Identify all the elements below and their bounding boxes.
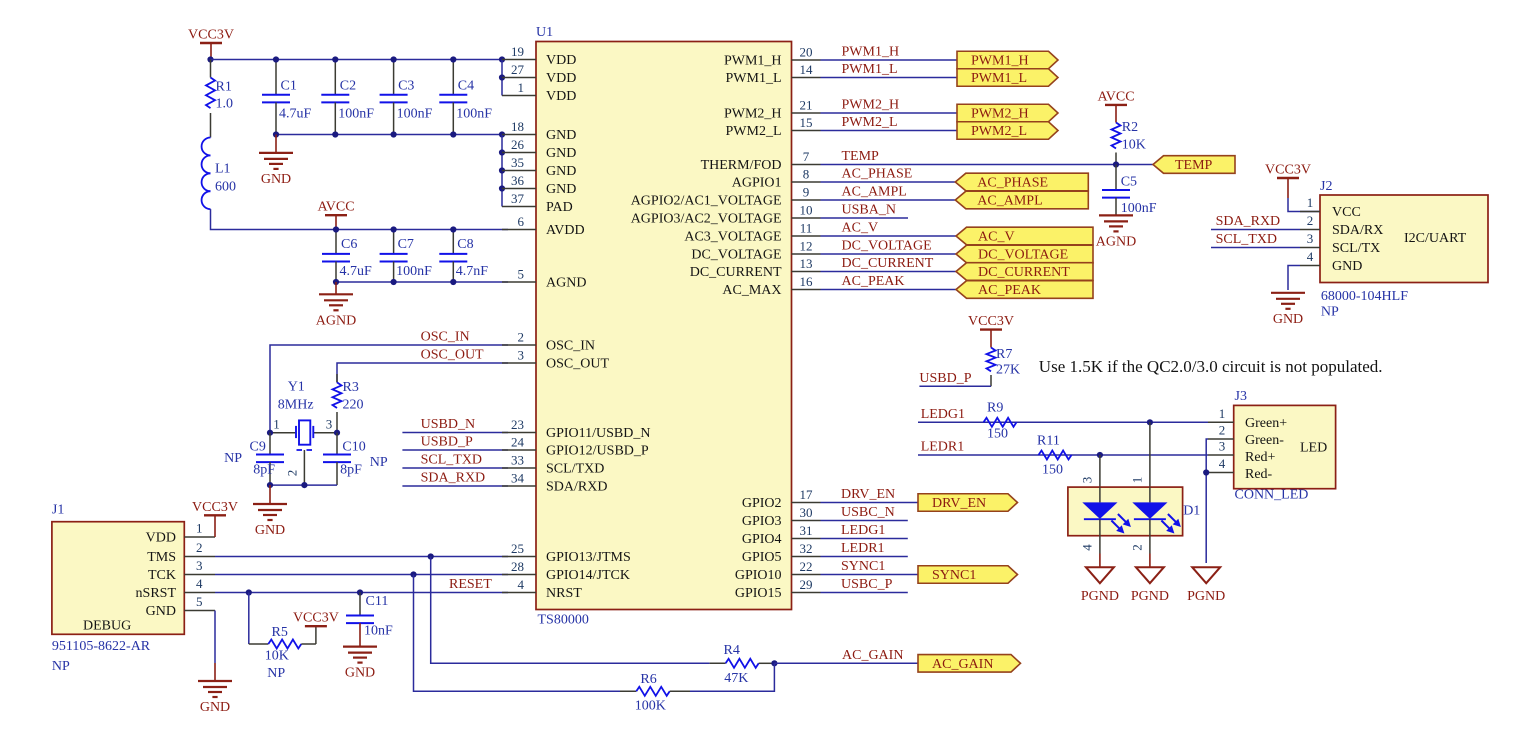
node C1 top [273, 56, 279, 62]
wire D1 pin3 [1080, 455, 1100, 487]
svg-text:SDA_RXD: SDA_RXD [1216, 214, 1281, 229]
svg-text:PWM2_H: PWM2_H [971, 107, 1029, 122]
svg-text:PWM1_H: PWM1_H [724, 54, 782, 69]
pin U1.13 (DC_CURRENT) [690, 256, 821, 280]
svg-text:PWM2_H: PWM2_H [842, 98, 900, 113]
svg-text:31: 31 [800, 523, 813, 538]
svg-text:GND: GND [261, 172, 291, 187]
wire J1 GND [214, 611, 216, 664]
svg-text:AC_GAIN: AC_GAIN [932, 657, 993, 672]
svg-text:DC_VOLTAGE: DC_VOLTAGE [842, 239, 932, 254]
svg-text:3: 3 [1307, 231, 1314, 246]
wire PWM1_H net [821, 45, 958, 61]
svg-text:AC_V: AC_V [842, 221, 879, 236]
wire SDA_RXD net [402, 471, 508, 487]
svg-text:AC3_VOLTAGE: AC3_VOLTAGE [684, 230, 781, 245]
svg-text:C9: C9 [250, 440, 266, 455]
ground AGND (under C6) [316, 282, 356, 328]
svg-text:2: 2 [285, 470, 300, 477]
node C9 bottom [267, 482, 273, 488]
node nSRST/C11 junction [357, 589, 363, 595]
svg-text:1: 1 [518, 80, 525, 95]
wire USBC_N net [821, 505, 908, 521]
svg-text:SCL/TXD: SCL/TXD [546, 462, 604, 477]
pin U1.11 (AC3_VOLTAGE) [684, 221, 820, 245]
svg-text:2: 2 [518, 330, 525, 345]
capacitor C3 [380, 60, 433, 135]
svg-text:R6: R6 [640, 672, 656, 687]
svg-text:27K: 27K [996, 363, 1020, 378]
pin U1.15 (PWM2_L) [726, 115, 821, 139]
svg-text:C4: C4 [458, 79, 474, 94]
node J3 pin4 junction [1203, 469, 1209, 475]
flag AC_PHASE [955, 173, 1088, 191]
wire VDD pin bus [501, 60, 503, 96]
LED D1 red element [1132, 487, 1181, 536]
svg-text:13: 13 [800, 256, 813, 271]
power symbol VCC3V (top left) [188, 28, 234, 60]
svg-text:R3: R3 [343, 380, 359, 395]
svg-text:PWM1_L: PWM1_L [971, 71, 1027, 86]
svg-text:AGND: AGND [546, 276, 586, 291]
wire PWM2_H net [821, 98, 958, 114]
svg-text:AC_MAX: AC_MAX [722, 283, 781, 298]
svg-text:DRV_EN: DRV_EN [932, 496, 986, 511]
svg-text:1: 1 [273, 417, 280, 432]
pin J3.1 stub [1208, 406, 1234, 423]
inductor L1 [202, 138, 236, 210]
node C6 bottom / AGND junction [333, 279, 339, 285]
svg-text:TS80000: TS80000 [538, 613, 589, 628]
node TMS/R4 junction [428, 553, 434, 559]
power symbol AVCC (R2) [1097, 89, 1134, 122]
svg-text:8MHz: 8MHz [278, 398, 314, 413]
svg-text:VCC: VCC [1332, 205, 1361, 220]
wire GND rail [276, 134, 502, 136]
svg-text:TEMP: TEMP [1175, 158, 1213, 173]
node C3 top [391, 56, 397, 62]
node C4 top [450, 56, 456, 62]
node Y1 pin1 [267, 430, 273, 436]
pin J3.3 stub [1208, 439, 1234, 456]
svg-text:32: 32 [800, 541, 813, 556]
flag TEMP [1153, 156, 1235, 174]
pin U1.29 (GPIO15) [735, 577, 821, 601]
svg-text:1: 1 [196, 521, 203, 536]
svg-text:26: 26 [511, 137, 525, 152]
svg-text:5: 5 [518, 267, 525, 282]
svg-text:C3: C3 [398, 79, 414, 94]
node C3 bottom [391, 131, 397, 137]
svg-text:14: 14 [800, 62, 814, 77]
svg-text:VDD: VDD [546, 89, 576, 104]
svg-text:11: 11 [800, 221, 813, 236]
svg-text:AC_AMPL: AC_AMPL [842, 185, 907, 200]
flag DC_VOLTAGE [956, 245, 1093, 263]
svg-text:27: 27 [511, 62, 525, 77]
svg-text:LEDR1: LEDR1 [841, 541, 885, 556]
svg-text:SYNC1: SYNC1 [932, 568, 976, 583]
svg-text:3: 3 [1080, 477, 1095, 484]
svg-text:LEDR1: LEDR1 [921, 440, 965, 455]
svg-text:GPIO4: GPIO4 [742, 532, 782, 547]
node pin19 junction [499, 56, 505, 62]
wire J3 Green-/Red- to PGND [1206, 439, 1208, 563]
connector J1 (DEBUG) [52, 503, 184, 675]
svg-text:C5: C5 [1121, 175, 1137, 190]
wire TCK to R6 [414, 575, 621, 692]
svg-text:VDD: VDD [546, 71, 576, 86]
capacitor C9 [224, 433, 284, 485]
svg-text:10nF: 10nF [364, 624, 393, 639]
svg-text:C2: C2 [340, 79, 356, 94]
svg-text:nSRST: nSRST [136, 586, 177, 601]
svg-text:25: 25 [511, 541, 524, 556]
svg-text:100nF: 100nF [1121, 201, 1157, 216]
node R4/R6 junction [771, 660, 777, 666]
wire OSC_IN net [270, 330, 508, 433]
wire TMS to R4 [431, 557, 710, 664]
resistor R4 [710, 643, 775, 686]
svg-text:PWM2_L: PWM2_L [971, 124, 1027, 139]
resistor R11 [1037, 434, 1072, 478]
wire D1 pin2 [1130, 536, 1150, 554]
svg-text:TEMP: TEMP [842, 149, 880, 164]
pin U1.4 (NRST) [502, 577, 582, 601]
node C8 top [450, 226, 456, 232]
capacitor C4 [439, 60, 492, 135]
pin U1.34 (SDA/RXD) [502, 471, 607, 495]
svg-text:PWM1_L: PWM1_L [842, 62, 898, 77]
svg-text:I2C/UART: I2C/UART [1404, 231, 1467, 246]
capacitor C5 [1102, 165, 1157, 217]
svg-text:PGND: PGND [1187, 589, 1225, 604]
pin U1.10 (AGPIO3/AC2_VOLTAGE) [631, 203, 821, 227]
wire VDD rail [211, 59, 503, 61]
svg-text:4.7nF: 4.7nF [456, 264, 489, 279]
svg-text:USBA_N: USBA_N [842, 203, 896, 218]
LED D1 body [1068, 487, 1200, 536]
svg-text:AC_PEAK: AC_PEAK [842, 274, 905, 289]
svg-text:GPIO3: GPIO3 [742, 514, 782, 529]
pin U1.17 (GPIO2) [742, 487, 821, 511]
svg-text:15: 15 [800, 115, 813, 130]
capacitor C2 [321, 60, 374, 135]
svg-text:J2: J2 [1320, 179, 1332, 194]
wire SCL_TXD (J2) net [1211, 232, 1300, 248]
svg-text:U1: U1 [536, 25, 553, 40]
svg-text:GPIO13/JTMS: GPIO13/JTMS [546, 550, 631, 565]
svg-text:Red+: Red+ [1245, 450, 1276, 465]
svg-text:USBD_P: USBD_P [421, 435, 473, 450]
svg-text:GND: GND [1273, 312, 1303, 327]
wire AC_PHASE net [821, 167, 956, 183]
wire DC_CURRENT net [821, 256, 957, 272]
svg-text:DC_VOLTAGE: DC_VOLTAGE [691, 248, 781, 263]
wire L1 to AVCC rail [211, 209, 337, 229]
flag SYNC1 [918, 566, 1018, 584]
power symbol AVCC (left) [317, 200, 354, 230]
pin J3.4 stub [1208, 456, 1234, 473]
wire OSC_OUT net [337, 348, 508, 383]
pin U1.32 (GPIO5) [742, 541, 821, 565]
flag PWM2_L [957, 122, 1058, 140]
svg-text:2: 2 [196, 540, 203, 555]
node TEMP junction [1113, 161, 1119, 167]
pin U1.28 (GPIO14/JTCK) [502, 559, 630, 583]
pin U1.30 (GPIO3) [742, 505, 821, 529]
svg-text:R5: R5 [272, 625, 288, 640]
pin U1.5 (AGND) [502, 267, 586, 291]
wire PWM2_L net [821, 115, 958, 131]
pin U1.8 (AGPIO1) [732, 167, 821, 191]
svg-text:Red-: Red- [1245, 467, 1273, 482]
node pin36 junction [499, 185, 505, 191]
node Y1 pin3 [334, 430, 340, 436]
wire USBA_N net [821, 203, 909, 219]
svg-text:Y1: Y1 [288, 380, 305, 395]
pin U1.20 (PWM1_H) [724, 45, 821, 69]
power symbol VCC3V (R5) [293, 611, 339, 644]
svg-text:AGPIO3/AC2_VOLTAGE: AGPIO3/AC2_VOLTAGE [631, 212, 782, 227]
svg-text:7: 7 [803, 149, 810, 164]
svg-text:DEBUG: DEBUG [83, 619, 131, 634]
svg-text:DRV_EN: DRV_EN [841, 487, 895, 502]
svg-text:600: 600 [215, 180, 236, 195]
svg-text:Green-: Green- [1245, 433, 1284, 448]
svg-text:1.0: 1.0 [216, 97, 234, 112]
svg-text:LED: LED [1300, 441, 1327, 456]
pin U1.18 (GND) [502, 119, 576, 143]
pin U1.1 (VDD) [502, 80, 576, 104]
node TCK/R6 junction [410, 571, 416, 577]
node LEDR1/D1 junction [1097, 452, 1103, 458]
svg-text:AVCC: AVCC [1097, 89, 1134, 104]
svg-text:4.7uF: 4.7uF [279, 107, 312, 122]
wire LEDR1 net [918, 440, 1208, 456]
svg-text:SCL_TXD: SCL_TXD [421, 453, 482, 468]
svg-text:2: 2 [1307, 213, 1314, 228]
svg-text:2: 2 [1219, 423, 1226, 438]
svg-text:GND: GND [255, 523, 285, 538]
svg-text:R1: R1 [216, 80, 232, 95]
svg-text:GND: GND [546, 164, 576, 179]
svg-text:220: 220 [343, 398, 364, 413]
svg-text:DC_CURRENT: DC_CURRENT [842, 256, 934, 271]
flag PWM2_H [957, 104, 1058, 122]
svg-text:SCL/TX: SCL/TX [1332, 241, 1380, 256]
svg-text:GND: GND [200, 700, 230, 715]
svg-text:SDA_RXD: SDA_RXD [421, 471, 486, 486]
power symbol VCC3V (J2) [1265, 163, 1311, 199]
svg-text:VDD: VDD [146, 531, 176, 546]
svg-text:12: 12 [800, 239, 813, 254]
wire LEDG1 (U1) net [821, 523, 908, 539]
svg-text:VCC3V: VCC3V [192, 500, 238, 515]
LED D1 green element [1082, 487, 1131, 536]
svg-text:47K: 47K [724, 671, 748, 686]
wire PWM1_L net [821, 62, 958, 78]
svg-text:AGPIO1: AGPIO1 [732, 176, 782, 191]
svg-text:AGPIO2/AC1_VOLTAGE: AGPIO2/AC1_VOLTAGE [631, 194, 782, 209]
svg-text:USBD_P: USBD_P [919, 371, 971, 386]
node pin27 junction [499, 74, 505, 80]
svg-text:L1: L1 [215, 162, 231, 177]
svg-text:AVDD: AVDD [546, 223, 585, 238]
node C4 bottom [450, 131, 456, 137]
svg-text:AC_PEAK: AC_PEAK [978, 283, 1041, 298]
svg-text:NP: NP [224, 451, 242, 466]
svg-text:AC_AMPL: AC_AMPL [977, 194, 1042, 209]
resistor R6 [620, 672, 690, 713]
svg-text:GPIO2: GPIO2 [742, 496, 782, 511]
wire J2 GND [1288, 266, 1300, 291]
svg-text:20: 20 [800, 45, 813, 60]
svg-text:28: 28 [511, 559, 524, 574]
svg-text:AGND: AGND [1096, 234, 1136, 249]
svg-text:SDA/RXD: SDA/RXD [546, 480, 607, 495]
svg-text:3: 3 [196, 558, 203, 573]
svg-text:NP: NP [267, 666, 285, 681]
svg-text:1: 1 [1307, 195, 1314, 210]
flag DC_CURRENT [956, 263, 1093, 281]
pin U1.22 (GPIO10) [735, 559, 821, 583]
resistor R9 [984, 401, 1017, 442]
svg-text:AC_PHASE: AC_PHASE [977, 176, 1048, 191]
svg-text:GND: GND [546, 128, 576, 143]
svg-text:TCK: TCK [148, 568, 176, 583]
wire USBD_P (R7) net [919, 371, 991, 387]
svg-text:NRST: NRST [546, 586, 582, 601]
svg-text:8: 8 [803, 167, 810, 182]
svg-text:DC_CURRENT: DC_CURRENT [978, 265, 1070, 280]
power symbol VCC3V (J1) [192, 500, 238, 537]
svg-text:USBC_P: USBC_P [841, 577, 893, 592]
svg-text:DC_VOLTAGE: DC_VOLTAGE [978, 248, 1068, 263]
svg-text:22: 22 [800, 559, 813, 574]
svg-text:NP: NP [1321, 305, 1339, 320]
pin J2.2 stub [1300, 213, 1320, 230]
svg-text:USBC_N: USBC_N [841, 505, 895, 520]
svg-text:LEDG1: LEDG1 [841, 523, 885, 538]
svg-text:AGND: AGND [316, 313, 356, 328]
svg-text:30: 30 [800, 505, 813, 520]
pin U1.26 (GND) [502, 137, 576, 161]
wire SYNC1 net [821, 559, 919, 575]
pin U1.25 (GPIO13/JTMS) [502, 541, 631, 565]
resistor R7 [987, 347, 1021, 386]
pin U1.2 (OSC_IN) [502, 330, 595, 354]
svg-text:NP: NP [52, 659, 70, 674]
svg-text:PWM2_L: PWM2_L [726, 124, 782, 139]
node pin18 junction [499, 131, 505, 137]
capacitor C1 [262, 60, 312, 135]
svg-text:150: 150 [1042, 463, 1063, 478]
pin J3.2 stub [1208, 423, 1234, 440]
capacitor C7 [380, 230, 433, 283]
svg-text:NP: NP [370, 455, 388, 470]
svg-text:GND: GND [546, 182, 576, 197]
node LEDG1/D1 junction [1147, 419, 1153, 425]
svg-text:RESET: RESET [449, 577, 492, 592]
wire AC_GAIN net [774, 648, 918, 664]
svg-text:100K: 100K [635, 699, 666, 714]
svg-text:10K: 10K [265, 649, 289, 664]
node C8 bottom [450, 279, 456, 285]
pin U1.31 (GPIO4) [742, 523, 821, 547]
node C7 bottom [391, 279, 397, 285]
svg-text:PWM1_L: PWM1_L [726, 71, 782, 86]
pin U1.6 (AVDD) [502, 214, 585, 238]
ground PGND (D1 pin4) [1081, 554, 1119, 605]
wire AC_PEAK net [821, 274, 957, 290]
ground GND (J1) [198, 663, 232, 715]
wire SDA_RXD (J2) net [1211, 214, 1300, 230]
pin U1.7 (THERM/FOD) [701, 149, 821, 173]
flag AC_GAIN [918, 655, 1021, 673]
svg-text:68000-104HLF: 68000-104HLF [1321, 289, 1408, 304]
svg-text:100nF: 100nF [456, 107, 492, 122]
svg-text:PAD: PAD [546, 200, 573, 215]
svg-text:4.7uF: 4.7uF [340, 264, 373, 279]
node VCC3V/R1 junction [207, 56, 213, 62]
svg-text:PWM2_H: PWM2_H [724, 107, 782, 122]
wire USBC_P net [821, 577, 908, 593]
wire LEDR1 (U1) net [821, 541, 908, 557]
capacitor C8 [439, 230, 488, 283]
svg-text:AVCC: AVCC [317, 200, 354, 215]
svg-text:R2: R2 [1122, 120, 1138, 135]
svg-text:9: 9 [803, 185, 810, 200]
svg-text:4: 4 [518, 577, 525, 592]
svg-text:SDA/RX: SDA/RX [1332, 223, 1383, 238]
flag AC_PEAK [956, 281, 1093, 299]
svg-text:THERM/FOD: THERM/FOD [701, 158, 782, 173]
connector J2 (I2C/UART) [1320, 179, 1488, 320]
svg-text:C1: C1 [281, 79, 297, 94]
wire D1 pin1 [1130, 422, 1150, 487]
wire DRV_EN net [821, 487, 919, 503]
svg-text:GPIO12/USBD_P: GPIO12/USBD_P [546, 444, 649, 459]
pin J1.5 stub [184, 594, 215, 611]
svg-text:Green+: Green+ [1245, 416, 1287, 431]
wire AGND rail [336, 281, 508, 283]
svg-text:Use 1.5K if the QC2.0/3.0 circ: Use 1.5K if the QC2.0/3.0 circuit is not… [1039, 357, 1383, 376]
svg-text:1: 1 [1130, 477, 1145, 484]
node pin2 bottom [301, 482, 307, 488]
svg-text:R4: R4 [724, 643, 740, 658]
wire TMS net [215, 556, 508, 558]
pin U1.9 (AGPIO2/AC1_VOLTAGE) [631, 185, 821, 209]
svg-text:C10: C10 [342, 440, 365, 455]
wire nSRST/RESET net [215, 577, 508, 593]
svg-text:GND: GND [345, 666, 375, 681]
svg-text:33: 33 [511, 453, 524, 468]
svg-text:17: 17 [800, 487, 814, 502]
svg-text:3: 3 [518, 348, 525, 363]
svg-text:CONN_LED: CONN_LED [1235, 488, 1309, 503]
pin U1.36 (GND) [502, 173, 576, 197]
svg-text:5: 5 [196, 594, 203, 609]
connector J3 (CONN_LED) [1234, 389, 1336, 503]
svg-text:1: 1 [1219, 406, 1226, 421]
svg-text:GND: GND [146, 604, 176, 619]
svg-text:R11: R11 [1037, 434, 1060, 449]
svg-text:C8: C8 [457, 237, 473, 252]
svg-text:29: 29 [800, 577, 813, 592]
wire LEDG1 net [918, 407, 1208, 423]
svg-text:LEDG1: LEDG1 [921, 407, 965, 422]
